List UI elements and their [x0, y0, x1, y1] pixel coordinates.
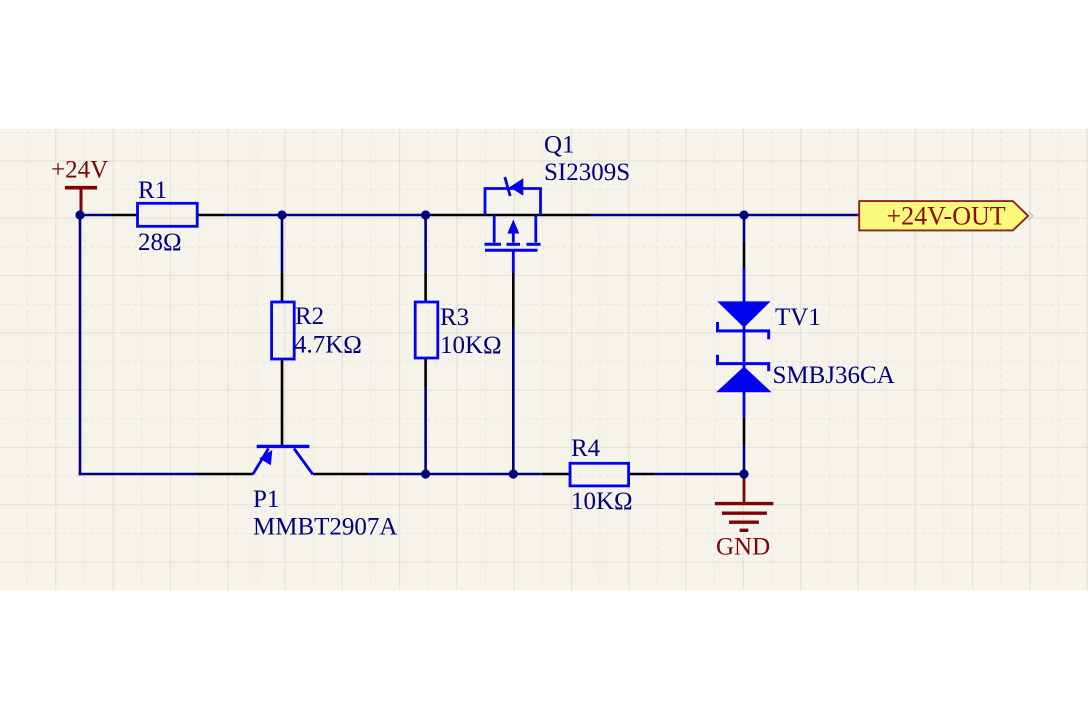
power port +24V bar	[65, 188, 97, 214]
wire TVS top pin black	[743, 242, 746, 268]
wire R2 top pin black	[281, 273, 284, 302]
svg-text:SMBJ36CA: SMBJ36CA	[773, 362, 895, 389]
wire top rail middle navy	[225, 214, 432, 217]
svg-text:R3: R3	[440, 304, 469, 331]
wire R4 left pin black	[542, 473, 570, 476]
mosfet Q1 channel plate left	[485, 243, 502, 246]
wire top rail right navy	[590, 214, 860, 217]
wire TVS bottom navy	[743, 445, 746, 476]
svg-text:10KΩ: 10KΩ	[571, 488, 633, 515]
svg-text:R1: R1	[138, 177, 167, 204]
wire Q1 gate pin black	[512, 273, 515, 327]
wire R3 column navy	[424, 215, 427, 273]
wire bottom rail middle navy	[367, 473, 542, 476]
svg-text:+24V: +24V	[51, 157, 108, 184]
transistor P1 emitter	[253, 449, 269, 475]
resistor R2	[272, 302, 295, 359]
svg-text:GND: GND	[716, 534, 770, 561]
wire TVS top navy	[743, 215, 746, 242]
svg-text:MMBT2907A: MMBT2907A	[253, 514, 397, 541]
mosfet Q1 arrow line	[512, 233, 515, 243]
wire TVS bottom pin black	[743, 418, 746, 445]
mosfet Q1 right stub	[534, 215, 537, 243]
wire R2 column navy	[281, 215, 284, 273]
wire left vertical	[79, 214, 82, 476]
wire top rail under Q1 black	[432, 214, 590, 217]
port flag +24V-OUT	[859, 201, 1028, 230]
resistor R1	[138, 203, 198, 226]
wire bottom rail right navy	[654, 473, 745, 476]
wire TVS bottom pin blue	[743, 391, 746, 418]
ground bar 3	[729, 521, 759, 524]
svg-text:TV1: TV1	[775, 304, 821, 331]
wire Q1 gate column navy	[512, 327, 515, 474]
sheet background	[0, 129, 1088, 590]
mosfet Q1 body diode bar	[505, 177, 510, 196]
svg-text:P1: P1	[253, 486, 279, 513]
port tick	[1029, 212, 1034, 221]
junction TVS top	[739, 210, 748, 219]
tvs TV1 top triangle	[717, 301, 770, 327]
wire P1 collector pin black	[313, 473, 367, 476]
transistor P1 emitter arrow	[259, 450, 272, 465]
junction R3 top	[421, 210, 430, 219]
tvs TV1 top zener bar	[718, 322, 769, 339]
ground symbol stem	[743, 474, 746, 504]
svg-text:4.7KΩ: 4.7KΩ	[294, 332, 362, 359]
wire R4 right pin black	[629, 473, 655, 476]
transistor P1 base bar	[257, 445, 310, 448]
wire TVS top pin blue	[743, 268, 746, 302]
junction R2 top	[277, 210, 286, 219]
junction top left	[75, 210, 84, 219]
ground bar 2	[722, 512, 767, 515]
wire R3 top pin black	[424, 273, 427, 302]
wire R1 right pin black	[197, 214, 225, 217]
tvs TV1 bottom zener bar	[718, 355, 769, 372]
mosfet Q1 body loop	[485, 189, 541, 216]
wire R3 bottom pin black	[424, 358, 427, 387]
junction R3 bottom	[421, 469, 430, 478]
wire P1 emitter pin black	[198, 473, 253, 476]
svg-text:28Ω: 28Ω	[138, 229, 182, 256]
tvs TV1 center line	[743, 326, 746, 368]
ground bar 4	[740, 529, 749, 532]
mosfet Q1 channel plate middle	[507, 243, 521, 246]
tvs TV1 bottom triangle	[716, 367, 771, 393]
mosfet Q1 channel plate right	[527, 243, 541, 246]
mosfet Q1 arrow head	[507, 220, 519, 234]
transistor P1 collector	[294, 449, 313, 475]
resistor R4	[570, 463, 629, 486]
svg-text:+24V-OUT: +24V-OUT	[887, 202, 1006, 231]
mosfet Q1 gate plate	[485, 249, 538, 252]
svg-text:10KΩ: 10KΩ	[440, 332, 502, 359]
svg-text:SI2309S: SI2309S	[544, 159, 630, 186]
mosfet Q1 left stub	[493, 215, 496, 243]
svg-text:Q1: Q1	[544, 132, 575, 159]
svg-text:R2: R2	[295, 303, 324, 330]
mosfet Q1 gate lead	[512, 250, 515, 273]
svg-text:R4: R4	[571, 435, 601, 462]
wire R2 bottom pin and P1 base lead black	[281, 359, 284, 445]
ground bar 1	[715, 502, 774, 505]
wire R1 left pin black	[111, 214, 138, 217]
junction GND	[739, 469, 748, 478]
wire R3 bottom navy	[424, 387, 427, 474]
wire bottom rail left navy	[79, 473, 198, 476]
junction Q1 gate bottom	[509, 469, 518, 478]
mosfet Q1 body diode triangle	[510, 178, 524, 196]
wire top rail left navy	[79, 214, 111, 217]
resistor R3	[415, 302, 438, 358]
